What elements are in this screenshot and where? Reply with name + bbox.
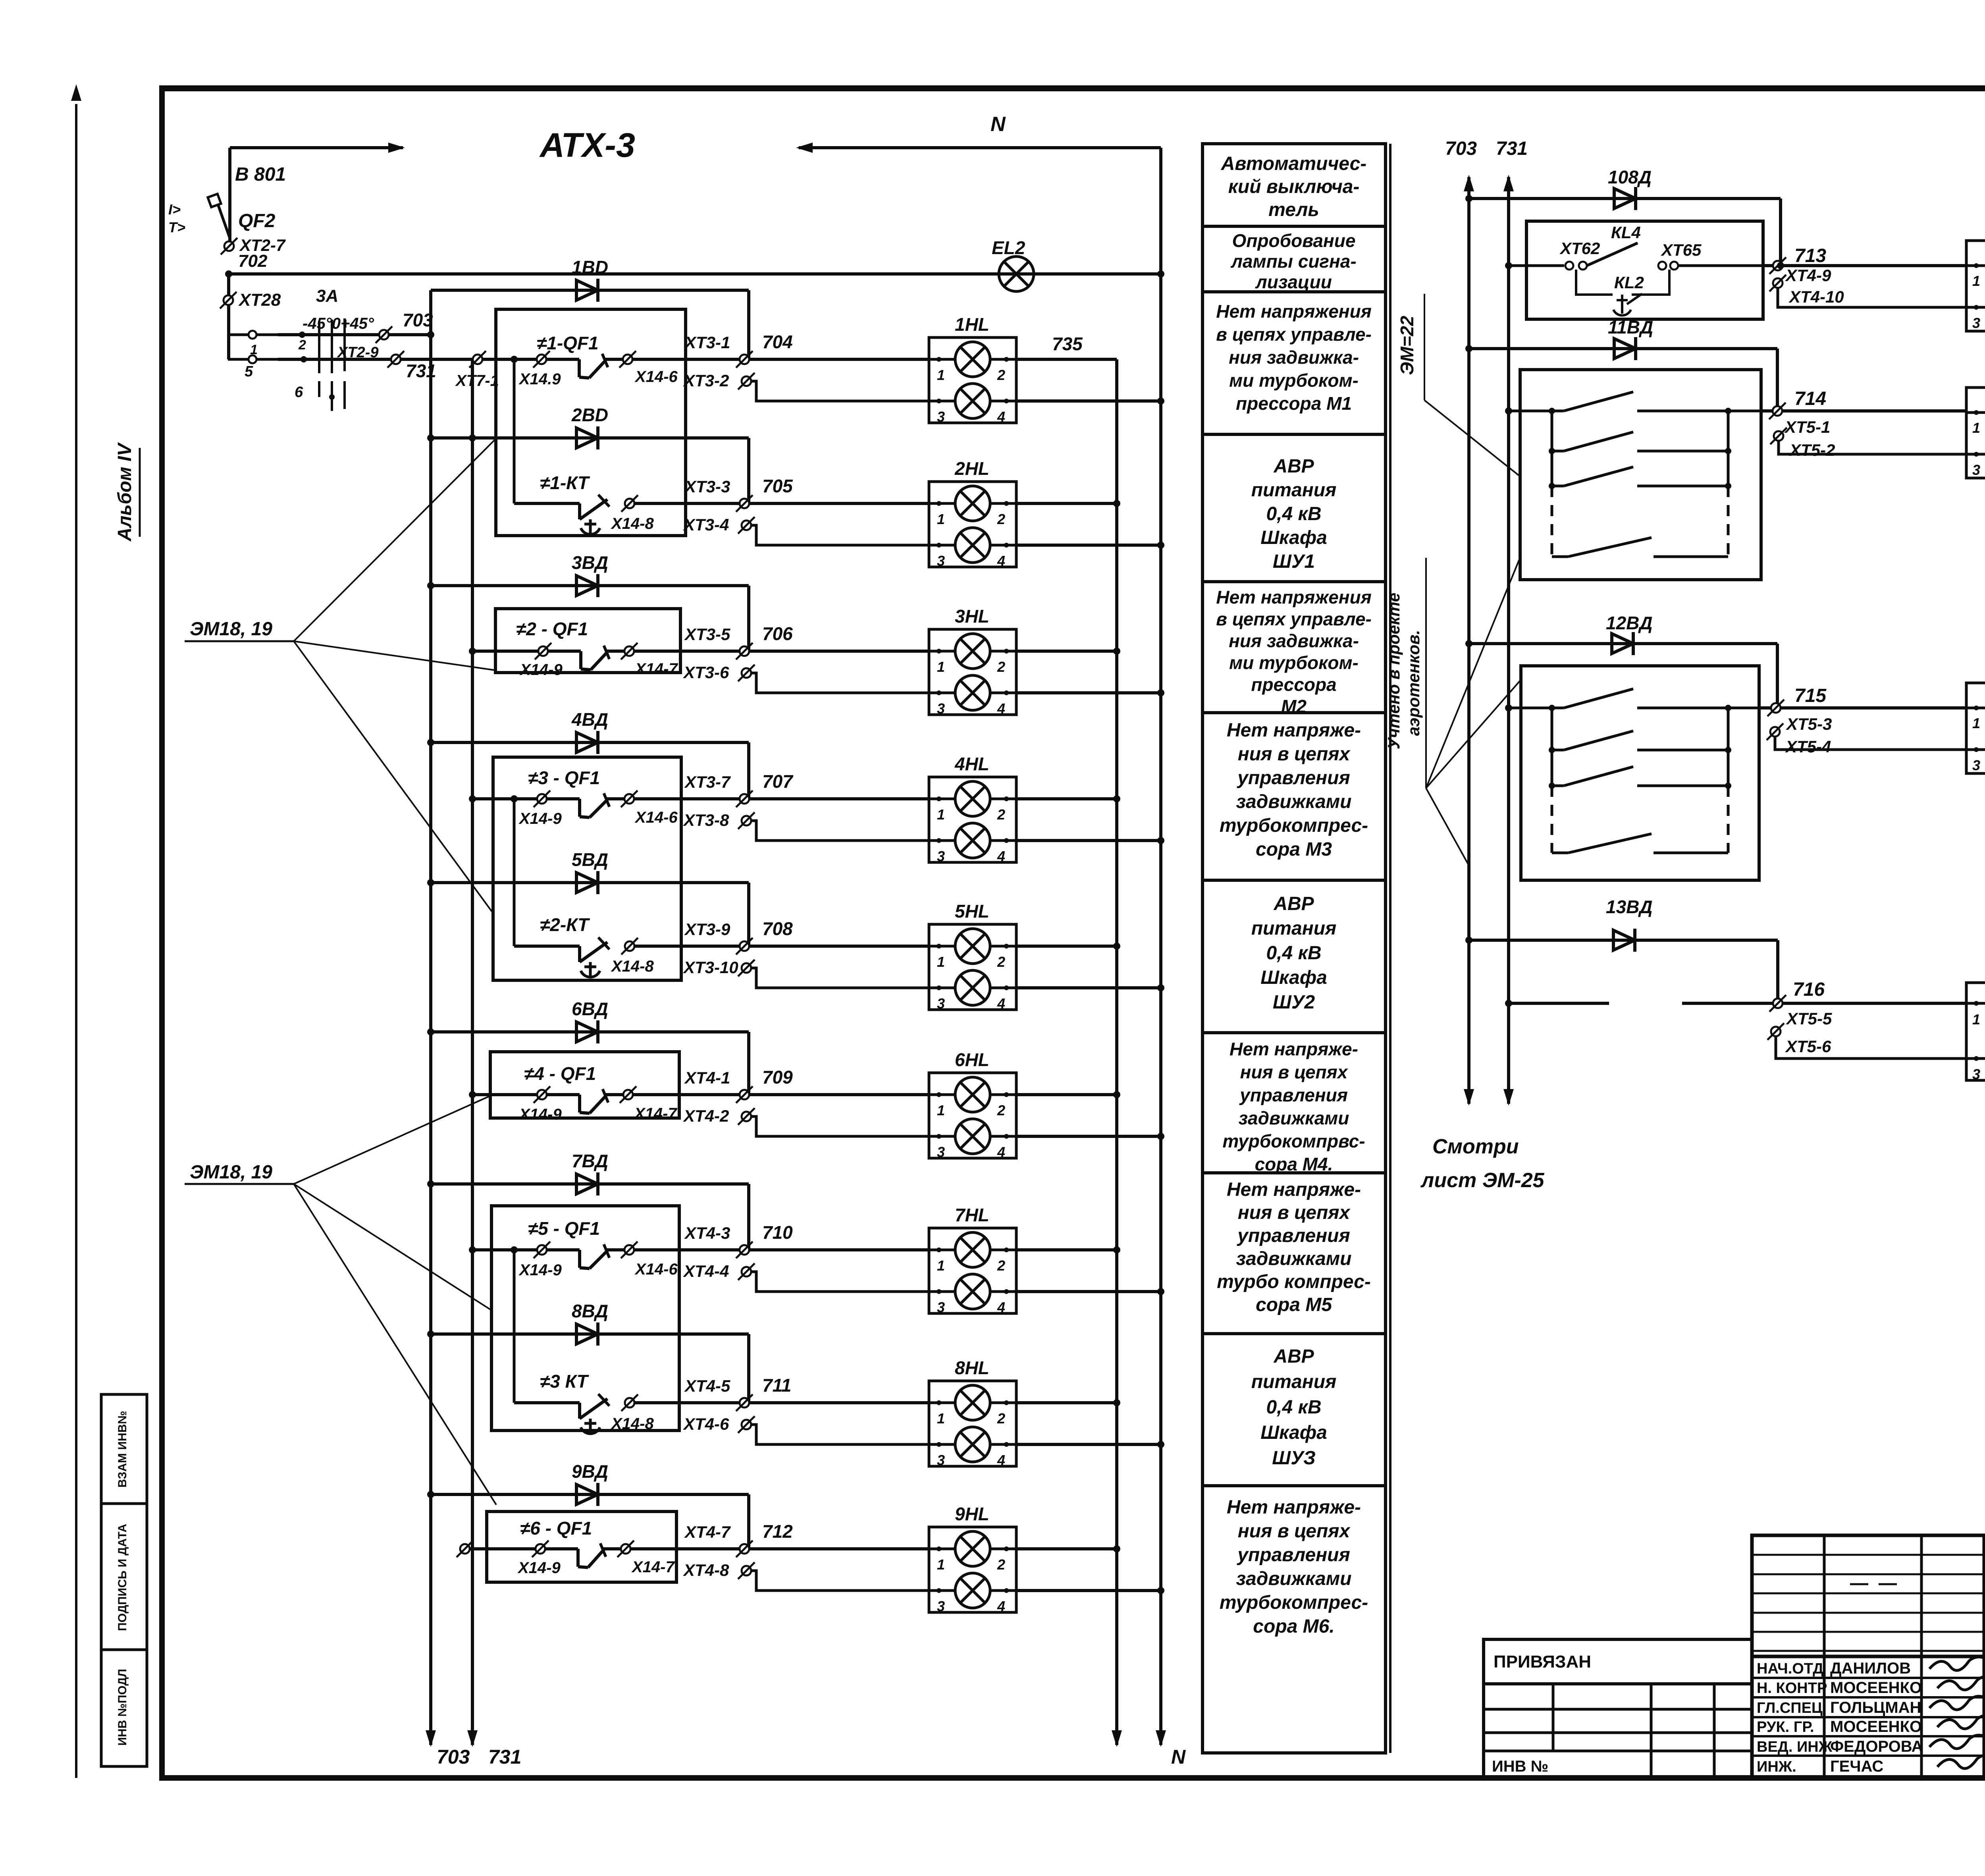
diode 9ВД row xyxy=(431,1493,749,1496)
svg-text:3: 3 xyxy=(937,995,945,1012)
svg-text:задвижками: задвижками xyxy=(1239,1108,1349,1128)
switch SA contacts 2-6 xyxy=(228,358,278,361)
svg-text:Нет напряжения: Нет напряжения xyxy=(1216,301,1372,322)
svg-text:ХТ4-1: ХТ4-1 xyxy=(684,1068,730,1087)
svg-text:Н. КОНТР: Н. КОНТР xyxy=(1757,1680,1827,1697)
wire row 703 xyxy=(278,333,431,336)
svg-text:731: 731 xyxy=(488,1746,521,1768)
breaker #5-QF1 xyxy=(469,1246,476,1253)
relay contact KL4 xyxy=(1565,262,1573,270)
node N top arrow left-pointing xyxy=(799,146,1161,149)
svg-text:3: 3 xyxy=(937,848,945,864)
wire pin4 row 712 to bus N xyxy=(1016,1589,1161,1592)
svg-text:Нет напряже-: Нет напряже- xyxy=(1230,1039,1358,1059)
lamp module 5HL xyxy=(929,924,1016,1010)
wire pin3 row 705 xyxy=(751,525,929,545)
svg-text:7ВД: 7ВД xyxy=(572,1151,608,1171)
svg-text:4: 4 xyxy=(997,553,1005,569)
lamp module 12HL xyxy=(1966,683,1985,773)
svg-text:703: 703 xyxy=(1445,138,1477,159)
svg-text:703: 703 xyxy=(437,1746,470,1768)
svg-text:ХТ3-2: ХТ3-2 xyxy=(683,371,729,390)
svg-text:2: 2 xyxy=(997,511,1005,527)
svg-text:АТХ-3: АТХ-3 xyxy=(539,126,635,164)
svg-text:1ВD: 1ВD xyxy=(572,257,608,278)
svg-text:5ВД: 5ВД xyxy=(572,849,608,870)
svg-text:ГЕЧАС: ГЕЧАС xyxy=(1830,1758,1883,1775)
terminal XT2-9b xyxy=(391,355,401,364)
wire pin2 row 705 to bus 735 xyxy=(1016,502,1117,505)
svg-text:713: 713 xyxy=(1794,245,1826,266)
wire pin3 row 709 xyxy=(751,1116,929,1136)
svg-text:НАЧ.ОТД: НАЧ.ОТД xyxy=(1757,1660,1823,1677)
terminal ХТ4-3 xyxy=(740,1245,749,1255)
svg-text:0,4 кВ: 0,4 кВ xyxy=(1266,1397,1321,1418)
wire pin4 row 704 to bus N xyxy=(1016,399,1161,403)
wire pin4 row 710 to bus N xyxy=(1016,1290,1161,1293)
wire pin3 row 711 xyxy=(751,1425,929,1444)
terminal ХТ4-6 xyxy=(742,1420,751,1429)
leader lines EM18,19 first xyxy=(294,439,496,641)
svg-text:управления: управления xyxy=(1239,1085,1348,1105)
wire row 708 xyxy=(635,945,929,948)
svg-text:3: 3 xyxy=(937,1144,945,1160)
svg-text:турбокомпрвс-: турбокомпрвс- xyxy=(1222,1131,1365,1151)
svg-text:ХТ7-1: ХТ7-1 xyxy=(455,372,499,389)
svg-text:1HL: 1HL xyxy=(955,314,989,335)
svg-text:Х14-7: Х14-7 xyxy=(634,1105,677,1122)
cam switch dashes xyxy=(299,332,305,338)
terminal ХТ4-8 xyxy=(742,1566,751,1575)
svg-text:4HL: 4HL xyxy=(954,754,989,774)
wire row 704 xyxy=(633,358,929,361)
wire row 709 xyxy=(634,1093,929,1096)
svg-text:ДАНИЛОВ: ДАНИЛОВ xyxy=(1830,1660,1911,1677)
leader lines Uchteno xyxy=(1426,557,1520,788)
svg-text:ХТ3-1: ХТ3-1 xyxy=(684,333,730,352)
svg-text:≠2 - QF1: ≠2 - QF1 xyxy=(516,619,588,639)
terminal ХТ3-6 xyxy=(742,668,751,678)
bus 731 vertical xyxy=(471,359,474,1745)
svg-text:6: 6 xyxy=(295,384,303,401)
svg-text:питания: питания xyxy=(1251,918,1337,939)
svg-text:ВЕД. ИНЖ: ВЕД. ИНЖ xyxy=(1757,1739,1833,1755)
svg-text:ШУ2: ШУ2 xyxy=(1273,992,1315,1013)
svg-text:1: 1 xyxy=(1972,1011,1980,1028)
svg-text:Автоматичес-: Автоматичес- xyxy=(1221,153,1367,174)
svg-text:Шкафа: Шкафа xyxy=(1260,967,1327,988)
lamp module 11HL xyxy=(1966,388,1985,478)
svg-text:Х14-9: Х14-9 xyxy=(517,1559,561,1577)
svg-text:712: 712 xyxy=(762,1521,793,1542)
svg-text:аэротенков.: аэротенков. xyxy=(1404,630,1423,736)
inner branch line M5 xyxy=(513,1250,516,1403)
svg-text:лизации: лизации xyxy=(1255,272,1332,292)
svg-text:3: 3 xyxy=(937,1598,945,1614)
terminal XT2-8 xyxy=(227,274,230,359)
svg-text:1: 1 xyxy=(937,1102,945,1118)
lamp module 3HL xyxy=(929,629,1016,715)
svg-text:1: 1 xyxy=(937,954,945,970)
svg-text:2: 2 xyxy=(997,954,1005,970)
wire pin3 row 710 xyxy=(751,1272,929,1292)
wire pin2 row 709 to bus 735 xyxy=(1016,1093,1117,1096)
terminal XT5-1 xyxy=(1728,410,1761,413)
wire pin3 row 707 xyxy=(751,821,929,841)
svg-text:Шкафа: Шкафа xyxy=(1260,527,1327,548)
svg-text:ХТ5-1: ХТ5-1 xyxy=(1784,418,1830,436)
terminal XT2-7 xyxy=(224,241,234,251)
terminal XT5-3 xyxy=(1728,707,1759,710)
svg-text:В 801: В 801 xyxy=(235,164,286,185)
terminal XT5-2 xyxy=(1774,431,1783,441)
svg-text:Альбом IV: Альбом IV xyxy=(114,442,135,542)
bus 703 right section xyxy=(1467,177,1470,1104)
bus 703 vertical xyxy=(429,290,432,1745)
svg-text:704: 704 xyxy=(762,332,793,352)
contact box row 714 xyxy=(1520,370,1761,580)
svg-text:3: 3 xyxy=(937,1452,945,1468)
svg-text:3А: 3А xyxy=(316,286,338,306)
svg-text:ВЗАМ ИНВ№: ВЗАМ ИНВ№ xyxy=(116,1411,129,1487)
svg-text:4: 4 xyxy=(997,409,1005,425)
svg-text:ХТ4-2: ХТ4-2 xyxy=(683,1107,729,1125)
svg-text:-45°0+45°: -45°0+45° xyxy=(303,315,374,332)
svg-text:ХТ4-9: ХТ4-9 xyxy=(1785,266,1831,285)
timer #2-KT xyxy=(514,945,580,948)
terminal ХТ3-1 xyxy=(740,355,749,364)
svg-text:9ВД: 9ВД xyxy=(572,1461,608,1482)
svg-text:ХТ5-3: ХТ5-3 xyxy=(1786,715,1832,733)
svg-text:715: 715 xyxy=(1794,685,1827,706)
svg-text:1: 1 xyxy=(937,659,945,675)
svg-text:ИНВ №: ИНВ № xyxy=(1492,1758,1548,1775)
svg-text:ХТ5-5: ХТ5-5 xyxy=(1786,1009,1832,1028)
svg-text:ХТ65: ХТ65 xyxy=(1661,241,1702,259)
terminal ХТ4-5 xyxy=(740,1398,749,1407)
terminal XT4-9 xyxy=(1763,264,1966,267)
svg-text:3: 3 xyxy=(937,700,945,717)
svg-text:ния задвижка-: ния задвижка- xyxy=(1229,630,1359,651)
wire pin3 row 704 xyxy=(751,381,929,401)
leader EM=22 xyxy=(1424,400,1520,476)
svg-text:2ВD: 2ВD xyxy=(571,405,608,425)
lamp module 13HL xyxy=(1966,983,1985,1080)
svg-text:сора М3: сора М3 xyxy=(1256,839,1332,860)
bus N vertical left section xyxy=(1159,148,1162,1745)
svg-text:Х14-7: Х14-7 xyxy=(634,660,678,678)
diode 5ВД row xyxy=(431,881,749,884)
svg-text:МОСЕЕНКО: МОСЕЕНКО xyxy=(1830,1679,1922,1697)
svg-text:2: 2 xyxy=(298,337,306,353)
svg-text:709: 709 xyxy=(762,1067,793,1087)
svg-text:707: 707 xyxy=(762,771,794,792)
svg-text:питания: питания xyxy=(1251,480,1337,501)
wire bus 702 xyxy=(229,272,1161,276)
stamp strip left xyxy=(101,1394,147,1766)
wire row 716 with gap xyxy=(1505,1000,1512,1007)
svg-text:Смотри: Смотри xyxy=(1432,1135,1519,1158)
left margin line with arrow xyxy=(75,104,77,1778)
svg-text:7HL: 7HL xyxy=(955,1205,989,1225)
svg-text:Х14-7: Х14-7 xyxy=(631,1558,675,1576)
wire pin4 row 706 to bus N xyxy=(1016,691,1161,694)
wire pin2 row 711 to bus 735 xyxy=(1016,1401,1117,1404)
svg-text:АВР: АВР xyxy=(1273,456,1314,477)
wire row 705 xyxy=(635,502,929,505)
diode 1ВD row xyxy=(431,289,749,292)
terminal ХТ3-5 xyxy=(740,646,749,656)
svg-text:3: 3 xyxy=(937,1299,945,1315)
svg-text:МОСЕЕНКО: МОСЕЕНКО xyxy=(1830,1718,1922,1735)
svg-text:управления: управления xyxy=(1237,1544,1350,1566)
wire row 711 xyxy=(635,1401,929,1404)
breaker #3-QF1 xyxy=(469,795,476,802)
svg-text:Учтено в проекте: Учтено в проекте xyxy=(1384,593,1403,750)
wire row 713 xyxy=(1505,262,1512,269)
svg-text:турбо компрес-: турбо компрес- xyxy=(1217,1271,1371,1292)
svg-text:ГЛ.СПЕЦ: ГЛ.СПЕЦ xyxy=(1757,1700,1823,1716)
breaker group box M1 (#1-QF1 + #1-KT) xyxy=(496,309,686,536)
svg-text:0,4 кВ: 0,4 кВ xyxy=(1266,503,1321,524)
svg-text:8ВД: 8ВД xyxy=(572,1301,608,1321)
svg-text:турбокомпрес-: турбокомпрес- xyxy=(1220,815,1368,836)
svg-text:EL2: EL2 xyxy=(992,237,1025,258)
svg-text:ФЕДОРОВА: ФЕДОРОВА xyxy=(1830,1738,1923,1755)
svg-text:ПРИВЯЗАН: ПРИВЯЗАН xyxy=(1494,1652,1591,1672)
svg-text:1: 1 xyxy=(937,1556,945,1573)
svg-text:≠3 КТ: ≠3 КТ xyxy=(540,1371,589,1392)
svg-text:2HL: 2HL xyxy=(954,458,989,479)
wire pin2 row 710 to bus 735 xyxy=(1016,1248,1117,1251)
svg-text:Х14-9: Х14-9 xyxy=(518,810,562,827)
switch S4 dashed box3 xyxy=(1552,852,1568,854)
svg-text:1: 1 xyxy=(937,367,945,383)
svg-text:сора М6.: сора М6. xyxy=(1253,1616,1334,1637)
terminal XT5-4 xyxy=(1770,727,1780,737)
diode 8ВД row xyxy=(431,1332,749,1336)
svg-text:Х14-8: Х14-8 xyxy=(611,958,654,975)
wire pin2 row 712 to bus 735 xyxy=(1016,1547,1117,1550)
lamp module 8HL xyxy=(929,1381,1016,1466)
svg-text:13ВД: 13ВД xyxy=(1606,897,1653,917)
svg-text:11ВД: 11ВД xyxy=(1608,317,1653,337)
svg-text:5: 5 xyxy=(245,363,253,380)
wire pin2 row 708 to bus 735 xyxy=(1016,945,1117,948)
svg-text:ми турбоком-: ми турбоком- xyxy=(1229,370,1359,391)
breaker #1-QF1 xyxy=(496,358,537,361)
svg-text:705: 705 xyxy=(762,476,793,496)
title block signature table xyxy=(1752,1535,1985,1779)
svg-text:3: 3 xyxy=(1972,1066,1980,1082)
svg-text:ми турбоком-: ми турбоком- xyxy=(1229,652,1359,673)
svg-text:2: 2 xyxy=(997,1257,1005,1274)
wire pin3 row 712 xyxy=(751,1571,929,1591)
svg-text:1: 1 xyxy=(1972,420,1980,436)
svg-text:ЭМ18, 19: ЭМ18, 19 xyxy=(190,1162,272,1183)
terminal ХТ3-2 xyxy=(742,376,751,386)
dashed links box3 xyxy=(1551,786,1553,853)
svg-text:ХТ3-6: ХТ3-6 xyxy=(683,663,729,682)
wire pin3 715 xyxy=(1775,737,1966,750)
svg-text:турбокомпрес-: турбокомпрес- xyxy=(1220,1592,1368,1613)
terminal ХТ3-3 xyxy=(740,499,749,508)
svg-text:≠2-КТ: ≠2-КТ xyxy=(540,914,590,935)
diode 7ВД row xyxy=(431,1182,749,1186)
svg-text:ХТ4-7: ХТ4-7 xyxy=(684,1523,731,1541)
svg-text:ния в цепях: ния в цепях xyxy=(1238,744,1351,765)
svg-text:6ВД: 6ВД xyxy=(572,999,608,1019)
svg-text:N: N xyxy=(991,113,1006,136)
svg-text:4: 4 xyxy=(997,1144,1005,1160)
svg-text:ХТ3-5: ХТ3-5 xyxy=(684,625,730,644)
svg-text:ния в цепях: ния в цепях xyxy=(1238,1521,1351,1542)
wire row 706 xyxy=(635,650,929,653)
svg-text:3ВД: 3ВД xyxy=(572,552,608,573)
svg-text:прессора М1: прессора М1 xyxy=(1236,393,1352,414)
timer #1-KT xyxy=(514,502,580,505)
svg-text:6HL: 6HL xyxy=(955,1049,989,1070)
wire pin2 row 706 to bus 735 xyxy=(1016,650,1117,653)
inner branch line M3 xyxy=(513,799,516,946)
svg-text:3: 3 xyxy=(937,409,945,425)
svg-text:ЭМ18, 19: ЭМ18, 19 xyxy=(190,619,272,640)
svg-text:АВР: АВР xyxy=(1273,1346,1314,1367)
wire pin4 row 711 to bus N xyxy=(1016,1443,1161,1446)
svg-text:задвижками: задвижками xyxy=(1236,1248,1352,1269)
terminal XT4-10 xyxy=(1773,278,1783,288)
svg-text:Шкафа: Шкафа xyxy=(1260,1422,1327,1443)
svg-text:1: 1 xyxy=(1972,715,1980,731)
svg-text:706: 706 xyxy=(762,623,793,644)
wire pin2 row 704 to bus 735 xyxy=(1016,358,1117,361)
svg-text:Нет напряже-: Нет напряже- xyxy=(1227,1179,1361,1200)
diode 2ВD row xyxy=(431,436,749,440)
svg-text:QF2: QF2 xyxy=(238,210,276,231)
svg-text:4: 4 xyxy=(997,1452,1005,1468)
svg-text:1: 1 xyxy=(937,1410,945,1427)
breaker QF2 xyxy=(228,206,231,242)
svg-text:КL4: КL4 xyxy=(1611,223,1641,242)
svg-text:714: 714 xyxy=(1794,388,1826,409)
svg-text:ХТ28: ХТ28 xyxy=(238,290,281,310)
svg-text:3: 3 xyxy=(1972,462,1980,478)
diode 12BD row xyxy=(1469,642,1777,645)
svg-text:N: N xyxy=(1171,1746,1186,1768)
svg-text:ЭМ=22: ЭМ=22 xyxy=(1397,316,1417,375)
breaker group box M3 (#3-QF1 + #2-KT) xyxy=(493,757,681,980)
contact box row 715 xyxy=(1521,666,1759,880)
svg-text:≠6 - QF1: ≠6 - QF1 xyxy=(520,1518,592,1539)
wire pin3 713 xyxy=(1778,288,1966,307)
svg-text:ХТ3-9: ХТ3-9 xyxy=(684,920,730,939)
wire top-left arrow xyxy=(230,146,403,149)
svg-text:лампы сигна-: лампы сигна- xyxy=(1230,251,1356,272)
svg-text:ГОЛЬЦМАН: ГОЛЬЦМАН xyxy=(1830,1699,1921,1716)
switch S1 box3 xyxy=(1549,705,1555,711)
svg-text:≠3 - QF1: ≠3 - QF1 xyxy=(528,767,600,788)
wire pin4 row 705 to bus N xyxy=(1016,544,1161,547)
svg-text:2: 2 xyxy=(997,806,1005,823)
svg-text:Нет напряжения: Нет напряжения xyxy=(1216,587,1372,607)
bus 735 vertical xyxy=(1115,359,1118,1745)
bus 731 right section xyxy=(1507,177,1510,1104)
breaker group box M4 (#4-QF1) xyxy=(490,1052,679,1118)
inner branch line M1 xyxy=(513,359,516,503)
wire pin4 row 709 to bus N xyxy=(1016,1135,1161,1138)
diode 4ВД row xyxy=(431,741,749,744)
svg-text:2: 2 xyxy=(997,1556,1005,1573)
relay contact KL2 xyxy=(1658,262,1666,270)
svg-text:ХТ3-3: ХТ3-3 xyxy=(684,477,730,496)
svg-text:ХТ3-7: ХТ3-7 xyxy=(684,773,731,791)
svg-text:Х14-6: Х14-6 xyxy=(634,809,678,826)
svg-text:в цепях управле-: в цепях управле- xyxy=(1216,324,1372,345)
wire row 715 xyxy=(1505,704,1512,711)
svg-text:Х14-6: Х14-6 xyxy=(634,368,678,386)
switch SA contacts 1-5 xyxy=(228,334,278,336)
terminal ХТ4-7 xyxy=(740,1544,749,1554)
svg-text:9HL: 9HL xyxy=(955,1504,989,1524)
svg-text:Х14.9: Х14.9 xyxy=(518,370,561,388)
switch S1 box2 xyxy=(1549,408,1555,414)
wire row 731 xyxy=(278,358,496,361)
relay box KL xyxy=(1526,221,1763,319)
svg-text:сора М5: сора М5 xyxy=(1256,1294,1332,1315)
svg-text:Опробование: Опробование xyxy=(1232,230,1356,251)
svg-text:2: 2 xyxy=(997,1102,1005,1118)
svg-text:ИНЖ.: ИНЖ. xyxy=(1757,1758,1796,1775)
svg-text:4: 4 xyxy=(997,1299,1005,1315)
terminal ХТ3-4 xyxy=(742,521,751,530)
svg-text:Х14-6: Х14-6 xyxy=(634,1261,678,1278)
lamp module 10HL xyxy=(1966,241,1985,331)
lamp module 9HL xyxy=(929,1527,1016,1612)
lamp module 6HL xyxy=(929,1073,1016,1158)
svg-text:702: 702 xyxy=(238,251,268,271)
terminal ХТ3-9 xyxy=(740,941,749,951)
svg-text:Х14-8: Х14-8 xyxy=(611,1415,654,1433)
svg-text:0,4 кВ: 0,4 кВ xyxy=(1266,943,1321,964)
wire pin3 row 708 xyxy=(751,968,929,988)
terminal ХТ4-2 xyxy=(742,1112,751,1121)
svg-text:≠5 - QF1: ≠5 - QF1 xyxy=(528,1218,600,1239)
svg-text:1: 1 xyxy=(937,1257,945,1274)
wire row 707 xyxy=(635,797,929,800)
lamp module 4HL xyxy=(929,777,1016,862)
svg-text:4: 4 xyxy=(997,1598,1005,1614)
wire pin4 row 707 to bus N xyxy=(1016,839,1161,842)
terminal XT5-5 xyxy=(1783,1002,1966,1005)
svg-text:Х14-9: Х14-9 xyxy=(519,661,563,679)
svg-text:2: 2 xyxy=(997,367,1005,383)
svg-text:Х14-9: Х14-9 xyxy=(518,1261,562,1279)
svg-text:управления: управления xyxy=(1237,767,1350,789)
breaker group box M6 (#6-QF1) xyxy=(487,1512,676,1582)
svg-text:1: 1 xyxy=(1972,273,1980,289)
svg-text:М2: М2 xyxy=(1281,696,1307,717)
leader lines EM18,19 second xyxy=(294,1096,490,1184)
switch S3 box2 xyxy=(1549,483,1555,489)
svg-text:задвижками: задвижками xyxy=(1236,791,1352,812)
terminal XT2-9 xyxy=(379,330,389,339)
diode 108D row xyxy=(1469,197,1781,200)
wire row 714 xyxy=(1505,407,1512,415)
wire pin3 row 706 xyxy=(751,673,929,693)
svg-text:3: 3 xyxy=(937,553,945,569)
svg-text:ШУ1: ШУ1 xyxy=(1273,551,1315,572)
svg-text:711: 711 xyxy=(762,1375,791,1396)
